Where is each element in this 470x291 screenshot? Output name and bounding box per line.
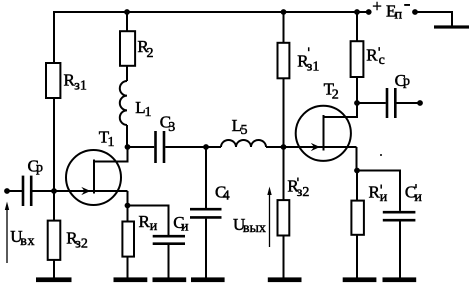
wire node to C4 (205, 147, 207, 208)
svg-text:5: 5 (241, 123, 248, 138)
prime R'z1 (308, 47, 310, 51)
wire T1 source down (127, 191, 129, 206)
svg-text:р: р (36, 161, 43, 176)
svg-text:+: + (372, 0, 382, 15)
prime R'z2 (297, 178, 299, 182)
ground top right Ep (434, 25, 469, 28)
wire source node to R_i (127, 206, 129, 222)
transistor Q1 gate arrow (81, 187, 90, 195)
wire source node to C'i (357, 171, 400, 211)
wire rail to R'c (356, 12, 358, 41)
wire node to L5 (206, 146, 221, 148)
transistor Q2 gate arrow (311, 143, 320, 151)
svg-text:1: 1 (108, 135, 115, 150)
wire rail to R'z1 (283, 12, 285, 43)
prime R'i (380, 185, 382, 189)
resistor R2 (120, 31, 135, 66)
ground under Ri (114, 277, 148, 282)
wire top rail and left column top (54, 12, 368, 63)
resistor R'i (351, 201, 364, 235)
svg-text:R: R (366, 46, 378, 65)
wire L1 to node (126, 125, 128, 147)
svg-text:и: и (380, 190, 388, 205)
node T1 drain (125, 144, 131, 150)
wire left column middle (53, 98, 55, 221)
node rail R2 (124, 9, 130, 15)
wire out cap to terminal (397, 102, 421, 104)
wire L5 to node (266, 146, 284, 148)
node input gate (51, 188, 57, 194)
wire C3 to node (165, 146, 206, 148)
svg-text:2: 2 (147, 46, 154, 61)
wire R2 to L1 (126, 66, 128, 81)
arrow input line (6, 206, 8, 263)
transistor T1 circle (66, 150, 121, 205)
resistor Ri (122, 222, 134, 257)
wire R'c to node (356, 77, 358, 103)
inductor L5 (221, 140, 266, 147)
capacitor Cp input plates (22, 176, 25, 206)
wire cap to gate T1 (32, 190, 127, 192)
transistor Q1 drain wire (94, 147, 128, 162)
wire C'i to ground (399, 222, 401, 279)
svg-text:и: и (181, 219, 189, 234)
ground under Rz2 (36, 277, 72, 282)
node T2 source (354, 168, 360, 174)
transistor Q1 channel bar (93, 160, 95, 194)
transistor Q2 drain wire (324, 103, 358, 117)
wire T2 source down (356, 147, 358, 171)
capacitor C3 plates (154, 131, 157, 163)
wire R2 top feed (126, 12, 128, 31)
node rail R'z1 (281, 9, 287, 15)
svg-text:р: р (403, 74, 410, 89)
resistor Rz2 (48, 221, 61, 260)
wire R_i to ground (127, 257, 129, 278)
wire node to C3 (128, 146, 155, 148)
svg-text:4: 4 (223, 189, 230, 204)
node T1 source (125, 203, 131, 209)
svg-text:з1: з1 (307, 60, 320, 75)
ground under Ci (153, 277, 187, 282)
node rail R'c (354, 9, 360, 15)
terminal output (417, 100, 423, 106)
svg-text:3: 3 (168, 120, 175, 135)
svg-text:з2: з2 (297, 185, 310, 200)
ground under C4 (191, 277, 225, 282)
capacitor C4 plates (190, 208, 222, 211)
arrow input Uvx (5, 202, 9, 211)
resistor R'c (351, 41, 364, 77)
arrow output Uvyx (267, 187, 271, 196)
ground under C'i (383, 277, 417, 282)
wire Ep minus to ground (416, 12, 452, 26)
svg-text:п: п (395, 8, 403, 23)
wire gate T2 and source line (284, 146, 357, 148)
ground under R'z2 (268, 277, 302, 282)
wire node to out cap (357, 102, 386, 104)
wire left column bottom (53, 260, 55, 278)
prime R'c (378, 47, 380, 51)
terminal input (4, 188, 10, 194)
wire R'z1 to R'z2 column (283, 78, 285, 200)
resistor R'z1 (278, 43, 290, 79)
wire C_i to ground (168, 245, 170, 278)
transistor Q2 channel bar (323, 115, 325, 151)
wire input to cap (7, 190, 22, 192)
wire source node to R'i (356, 171, 358, 202)
wire C4 to ground (205, 219, 207, 278)
svg-text:з2: з2 (75, 237, 88, 252)
capacitor C'i plates (383, 211, 416, 214)
stray dot (380, 154, 382, 156)
ground under R'i (343, 277, 377, 282)
node R'c drain (354, 100, 360, 106)
resistor Rz1 (46, 63, 60, 98)
terminal Ep minus (412, 9, 418, 15)
svg-text:вых: вых (243, 221, 266, 236)
prime C'i (415, 184, 417, 188)
capacitor Ci plates (153, 235, 185, 238)
svg-text:и: и (150, 219, 158, 234)
svg-text:вх: вх (20, 234, 35, 249)
svg-text:R: R (139, 212, 151, 231)
transistor T2 circle (296, 106, 351, 161)
node C3 C4 L5 (203, 144, 209, 150)
wire source node to C_i (128, 206, 169, 236)
terminal Ep plus (366, 9, 372, 15)
svg-text:R: R (369, 183, 381, 202)
wire R'z2 to ground (283, 236, 285, 279)
arrow output line (269, 193, 271, 247)
svg-text:с: с (379, 53, 385, 68)
svg-text:2: 2 (332, 87, 339, 102)
resistor R'z2 (278, 200, 290, 235)
wire R'i to ground (356, 235, 358, 278)
svg-text:и: и (414, 190, 422, 205)
capacitor Cp output plates (386, 88, 389, 118)
svg-text:з1: з1 (74, 79, 87, 94)
svg-text:1: 1 (145, 105, 152, 120)
node L5 gate T2 (281, 144, 287, 150)
inductor L1 (120, 81, 127, 125)
